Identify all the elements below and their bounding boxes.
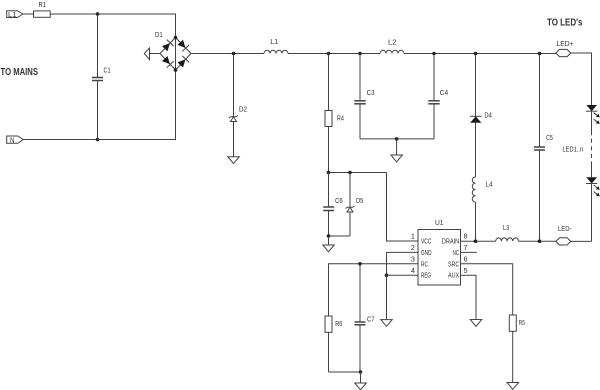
svg-text:3: 3 — [411, 254, 415, 263]
node D4 branch — [474, 52, 478, 56]
svg-text:C1: C1 — [104, 65, 111, 74]
inductor L3 — [496, 238, 519, 241]
VCC net wire R4/C6 to pin1 — [329, 172, 387, 174]
bridge diode top-left — [161, 40, 173, 52]
svg-text:D4: D4 — [484, 111, 492, 120]
node filter ground — [395, 137, 399, 141]
LED string LED2 — [586, 177, 597, 183]
ground below D2 — [228, 157, 240, 164]
svg-text:1: 1 — [411, 232, 415, 241]
svg-text:C5: C5 — [546, 133, 553, 142]
svg-text:R1: R1 — [39, 0, 47, 9]
ground below R5 — [507, 383, 519, 390]
ground below pin2/pin4 — [386, 275, 388, 319]
wire pin4 REG — [387, 274, 419, 276]
svg-text:2: 2 — [411, 243, 415, 252]
node D2 branch — [232, 52, 236, 56]
node bridge bottom vertex — [174, 68, 178, 72]
wire L1 to C3 node — [288, 53, 380, 55]
svg-text:NC: NC — [453, 248, 460, 257]
svg-text:L4: L4 — [486, 180, 493, 189]
zener diode D5 — [349, 173, 351, 208]
svg-text:LED-: LED- — [558, 224, 572, 233]
node pin8/L4 — [474, 239, 478, 243]
node pin4/gnd — [385, 273, 389, 277]
node C3 branch — [358, 52, 362, 56]
ground below C6/D5 — [328, 236, 330, 245]
capacitor C7 — [359, 264, 361, 322]
resistor R6 — [325, 316, 332, 332]
svg-text:DRAIN: DRAIN — [442, 237, 459, 246]
svg-text:7: 7 — [464, 243, 468, 252]
zener diode D2 — [229, 115, 238, 156]
connector tag L1 (mains line) — [7, 11, 23, 18]
wire pin3 RC — [329, 264, 419, 316]
inductor L4 — [472, 177, 475, 202]
wire through bridge (AC path) — [175, 38, 177, 71]
svg-text:GND: GND — [421, 248, 432, 257]
node C5 branch — [538, 52, 542, 56]
wire R6/C7 bottom — [329, 371, 361, 373]
ground below pin5 — [470, 320, 482, 327]
wire tag to R1 — [23, 13, 34, 15]
node VCC/D5 — [348, 171, 352, 175]
wire C6 to D5 bottom — [329, 235, 351, 237]
wire bridge output rail — [191, 53, 264, 55]
dashed LED continuation — [591, 131, 593, 164]
bridge rectifier D1 diamond — [160, 38, 191, 71]
node C4 branch — [432, 52, 436, 56]
svg-text:8: 8 — [464, 232, 468, 241]
wire N to bridge bottom corner — [23, 70, 175, 140]
wire LED2 to LED- corner — [591, 184, 593, 242]
svg-text:C4: C4 — [440, 88, 448, 97]
tag LED- — [556, 238, 571, 245]
svg-text:L1: L1 — [270, 37, 278, 46]
wire pin6 SRC to R5 — [461, 264, 513, 315]
inductor L1 — [264, 50, 288, 53]
bridge D1 AC arrow (left vertex) — [144, 48, 149, 60]
svg-text:D2: D2 — [239, 105, 247, 114]
svg-text:R4: R4 — [337, 114, 344, 123]
wire pin7 NC stub — [461, 251, 477, 253]
wire L2 to right — [404, 53, 556, 55]
resistor R1 — [34, 11, 51, 17]
svg-text:L1: L1 — [8, 10, 17, 19]
wire R1 to bridge top corner — [50, 14, 175, 38]
svg-text:D1: D1 — [155, 30, 163, 39]
svg-text:U1: U1 — [435, 218, 444, 227]
wire L3 to LED- tag — [519, 240, 556, 242]
wire LED- corner — [571, 240, 592, 242]
svg-text:D5: D5 — [356, 196, 363, 205]
node VCC/R4 — [327, 171, 331, 175]
bridge diode bottom-right — [177, 56, 189, 68]
wire pin2 GND — [387, 252, 419, 275]
svg-text:L2: L2 — [388, 38, 397, 47]
svg-text:L3: L3 — [503, 223, 509, 232]
svg-text:RC: RC — [421, 259, 428, 268]
svg-text:SRC: SRC — [448, 259, 459, 268]
svg-text:TO MAINS: TO MAINS — [1, 67, 39, 78]
bridge diode top-right — [177, 39, 189, 51]
node bottom rail / C1 — [96, 138, 100, 142]
node top rail / C1 — [96, 12, 100, 16]
tag LED+ — [556, 49, 571, 56]
inductor L2 — [380, 50, 404, 53]
svg-text:N: N — [10, 135, 15, 144]
resistor R4 — [328, 54, 330, 111]
svg-text:R6: R6 — [335, 319, 342, 328]
wire pin1 VCC — [387, 173, 419, 242]
capacitor C5 — [539, 54, 541, 147]
svg-text:VCC: VCC — [421, 237, 431, 246]
svg-text:4: 4 — [411, 266, 415, 275]
wire LED1 to dashed — [591, 111, 593, 131]
svg-text:AUX: AUX — [448, 271, 459, 280]
LED string LED1 — [586, 105, 597, 111]
svg-text:5: 5 — [464, 266, 468, 275]
svg-text:TO LED's: TO LED's — [547, 17, 583, 28]
capacitor C6 — [328, 173, 330, 207]
resistor R5 — [509, 315, 516, 331]
svg-text:C7: C7 — [367, 314, 375, 323]
node bottom gnd — [359, 370, 363, 374]
ground below R6/C7 — [360, 372, 362, 383]
wire L4 to pin8 node — [475, 202, 477, 241]
IC U1 body — [418, 230, 461, 286]
wire dashed to LED2 — [591, 164, 593, 177]
node C7 branch — [358, 262, 362, 266]
wire pin5 AUX to gnd — [461, 275, 477, 319]
node C5 bottom — [538, 239, 542, 243]
svg-text:C3: C3 — [367, 88, 375, 97]
wire LED+ to LED string — [571, 53, 592, 105]
svg-text:REG: REG — [421, 271, 431, 280]
svg-text:C6: C6 — [335, 196, 343, 205]
svg-text:LED1..n: LED1..n — [563, 144, 584, 153]
svg-text:LED+: LED+ — [557, 39, 575, 48]
ground below C3/C4 — [396, 139, 398, 155]
diode D4 — [475, 54, 477, 117]
connector tag N (mains neutral) — [7, 136, 24, 143]
capacitor C1 — [97, 14, 99, 77]
svg-text:R5: R5 — [519, 318, 525, 327]
node bridge top vertex — [174, 36, 178, 40]
wire C3-C4 bottom — [360, 138, 434, 140]
capacitor C4 — [433, 54, 435, 101]
svg-text:6: 6 — [464, 254, 468, 263]
wire D2 branch — [233, 54, 235, 117]
capacitor C3 — [359, 54, 361, 101]
wire pin8 DRAIN to LED- — [461, 240, 496, 242]
node C6 gnd — [327, 234, 331, 238]
node R4 branch — [327, 52, 331, 56]
bridge diode bottom-left — [161, 55, 173, 67]
